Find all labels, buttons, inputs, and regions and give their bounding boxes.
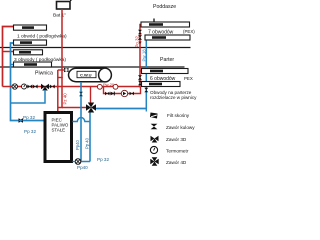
svg-text:STAŁE: STAŁE xyxy=(52,128,66,133)
svg-text:(PEX): (PEX) xyxy=(183,29,195,34)
wire: floor line between Parter and Piwnica xyxy=(0,66,185,68)
svg-text:Po 32: Po 32 xyxy=(135,35,140,47)
valve on Po32 riser upper xyxy=(138,30,142,35)
pump at boiler bottom (circle with cross) xyxy=(75,159,81,165)
manifold bar 1 (supply, 1 obwod) xyxy=(14,25,47,30)
3-way mixing valve Zawor 3D xyxy=(41,84,49,91)
svg-text:Poddasze: Poddasze xyxy=(153,4,176,10)
legend: 4-way valve icon xyxy=(150,157,158,165)
valve at tank inlet xyxy=(64,68,69,72)
valve on Po32 riser lower1 xyxy=(138,75,142,80)
wire: red riser from Bat vessel down (boiler supply) xyxy=(58,9,62,108)
wire: main red line A (boiler supply header) xyxy=(3,86,141,88)
legend: 3-way valve icon xyxy=(151,136,159,143)
svg-text:Pw 18: Pw 18 xyxy=(142,49,147,62)
wire: floor line between Poddasze and Parter xyxy=(0,47,191,49)
svg-text:Zawór 3D: Zawór 3D xyxy=(166,137,187,142)
svg-text:1 obwód ( podłogówka): 1 obwód ( podłogówka) xyxy=(17,34,67,40)
svg-text:Pp40: Pp40 xyxy=(75,140,80,150)
svg-text:Piwnica: Piwnica xyxy=(35,71,53,77)
wire: red riser Po 32 to upper manifolds xyxy=(140,25,142,88)
wire: boiler supply vertical into boiler top xyxy=(57,70,59,112)
wire: blue south port of 4-way valve down xyxy=(89,113,91,162)
pump on line B (circle with triangle) xyxy=(121,90,127,96)
manifold bar 2 (return, 1 obwod) xyxy=(14,40,47,45)
valve on line A after 3-way xyxy=(50,85,55,89)
wire: blue east port of 4-way valve to Pw18 riser xyxy=(96,108,146,110)
svg-text:Pp 40: Pp 40 xyxy=(85,137,90,149)
boiler PIEC PALIWO STALE xyxy=(45,113,72,162)
thermometer on line A right 1 xyxy=(97,84,102,89)
svg-text:Filt skośny: Filt skośny xyxy=(167,113,190,118)
svg-text:Pp 32: Pp 32 xyxy=(97,157,109,162)
4-way valve Zawor 4D xyxy=(86,103,96,113)
arrow end of blue return at valve xyxy=(145,109,147,112)
legend: thermometer icon xyxy=(150,146,157,153)
svg-text:Termometr: Termometr xyxy=(166,149,189,154)
svg-text:Pp40: Pp40 xyxy=(77,165,88,170)
wire: red west port from boiler supply to 4-way valve xyxy=(62,107,86,109)
wire: blue return riser left xyxy=(11,43,44,121)
wire: red stub to Parter manifold xyxy=(140,70,142,72)
manifold bar Parter return xyxy=(142,82,181,87)
svg-text:Zawór kulowy: Zawór kulowy xyxy=(166,125,195,130)
svg-text:Parter: Parter xyxy=(160,57,174,63)
svg-text:Zawór 4D: Zawór 4D xyxy=(166,160,187,165)
manifold bar Poddasze supply xyxy=(141,22,190,27)
manifold bar 4 (return, 3 obwody) xyxy=(14,62,52,67)
svg-text:C.W.U: C.W.U xyxy=(80,72,92,77)
svg-text:Pz 40: Pz 40 xyxy=(63,93,68,105)
valve on Po32 riser lower2 xyxy=(138,81,142,86)
svg-text:PEX: PEX xyxy=(184,76,193,81)
wire: U trap bottom xyxy=(81,161,90,163)
wire: blue drop from 3-way valve to return collector xyxy=(11,90,46,103)
wire: tank coil return stub xyxy=(58,77,63,79)
valve on line B xyxy=(105,92,109,96)
svg-text:Pp 32: Pp 32 xyxy=(24,129,36,134)
legend: filter icon xyxy=(150,113,158,119)
wire: red stub to manifold 3 obwody xyxy=(3,51,15,53)
valve on Po32 riser upper2 xyxy=(138,35,142,40)
manifold bar Poddasze return xyxy=(145,35,190,40)
wire: blue from tank bottom down through valve to U trap xyxy=(80,82,82,162)
tank C.W.U cylinder xyxy=(76,68,104,81)
wire: boiler outlet hop over tank drop xyxy=(73,117,91,121)
legend: ball valve icon xyxy=(151,124,158,130)
svg-text:Pp 32: Pp 32 xyxy=(23,115,35,120)
wire: red supply riser left (hot to left manifolds) xyxy=(3,27,15,87)
check valve on line B xyxy=(111,92,115,96)
valve on line A second xyxy=(33,85,38,89)
manifold bar 3 (supply, 3 obwody) xyxy=(14,50,43,55)
expansion vessel Bat 1'' xyxy=(57,2,71,10)
svg-text:rozdzielacze w piwnicy: rozdzielacze w piwnicy xyxy=(150,95,197,100)
wire: blue stub to manifold 3 obwody return xyxy=(11,64,15,66)
wire: CWU loading line B with pump xyxy=(104,87,141,94)
svg-text:Bat 1'': Bat 1'' xyxy=(53,13,66,19)
wire: red feed down to 4-way valve xyxy=(90,87,92,103)
thermometer on line A xyxy=(22,84,27,89)
node label C.W.U xyxy=(77,71,96,77)
valve on Pw18 riser xyxy=(144,88,148,93)
wire: tank coil supply stub with valve xyxy=(58,69,64,71)
valve on tank return drop xyxy=(79,92,83,96)
thermometer on line A right 2 xyxy=(113,84,118,89)
valve on line B 2 xyxy=(130,92,134,96)
wire: blue riser Pw 18 from upper manifolds xyxy=(97,38,153,109)
valve on boiler return Pp 32 xyxy=(19,118,24,123)
pump on line A (circle with X) xyxy=(12,84,17,89)
manifold bar Parter supply xyxy=(142,69,189,74)
valve on line A xyxy=(27,85,32,89)
arrow on Po32 riser xyxy=(138,42,141,45)
